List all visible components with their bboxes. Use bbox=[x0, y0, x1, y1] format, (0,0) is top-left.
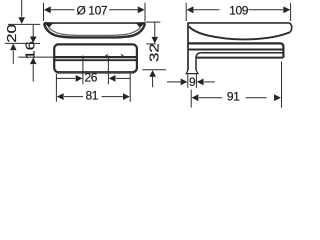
dimension 109 line right segment bbox=[249, 9, 284, 11]
shared extension line dish bottom / plate top bbox=[5, 42, 40, 44]
bracket arm side view bottom bbox=[196, 57, 284, 59]
dimension 20 bottom arrow bbox=[10, 44, 17, 51]
dimension 26 right arrow bbox=[109, 75, 116, 82]
svg-text:26: 26 bbox=[85, 70, 98, 84]
dimension 32 top arrow bbox=[152, 37, 159, 44]
dimension 20 top arrow stem bbox=[21, 0, 23, 17]
dimension Ø107 arrow left bbox=[44, 6, 51, 13]
dimension 32 bottom arrow stem bbox=[152, 77, 154, 88]
dimension 109 line left segment bbox=[193, 9, 219, 11]
dimension 20 bottom arrow stem bbox=[12, 51, 14, 64]
dimension 20 top arrow bbox=[18, 17, 25, 24]
dimension 91 line left segment bbox=[199, 97, 222, 99]
svg-text:9: 9 bbox=[189, 75, 196, 89]
holder plate side view top and right edge bbox=[188, 43, 284, 57]
soap dish front view inner bowl line bbox=[49, 27, 141, 35]
dimension 9 left arrow bbox=[181, 79, 188, 86]
dimension 91 line right segment bbox=[246, 97, 267, 99]
dimension 9 extension line right bbox=[195, 74, 197, 88]
dimension 16 bottom arrow stem bbox=[32, 64, 34, 81]
soap dish side view top rim bbox=[188, 22, 289, 24]
dimension 26 extension line left bbox=[82, 56, 84, 85]
dimension Ø107 extension line right bbox=[144, 3, 146, 21]
wall foot right edge bbox=[195, 58, 197, 71]
dimension 32 top boundary extension line bbox=[146, 43, 156, 45]
dimension Ø107 extension line left bbox=[43, 3, 45, 21]
dimension 81 line right segment bbox=[102, 96, 123, 98]
dimension 81 extension line left bbox=[55, 74, 57, 102]
svg-text:Ø 107: Ø 107 bbox=[76, 3, 107, 17]
soap dish side view bottom contour bbox=[189, 26, 290, 39]
wall line side view bbox=[187, 23, 189, 70]
svg-text:91: 91 bbox=[227, 89, 240, 103]
dimension 32 bottom extension line bbox=[142, 69, 166, 71]
dimension 81 extension line right bbox=[129, 74, 131, 102]
holder plate seam lower line bbox=[54, 59, 137, 61]
dimension 32 bottom arrow bbox=[149, 70, 156, 77]
dimension 91 right arrow bbox=[274, 94, 281, 101]
holder plate seam upper line bbox=[54, 56, 137, 58]
dimension 9 right leader bbox=[204, 81, 215, 83]
holder plate bottom edge shadow bbox=[57, 72, 134, 74]
dimension 9 right arrow bbox=[197, 79, 204, 86]
dimension 16 top arrow stem bbox=[32, 25, 34, 37]
dimension 109 extension line left bbox=[185, 3, 187, 21]
seam break tick left bbox=[104, 54, 108, 57]
dimension 9 extension line left bbox=[187, 74, 189, 88]
svg-text:109: 109 bbox=[229, 3, 249, 17]
svg-text:20: 20 bbox=[5, 24, 20, 43]
dimension 109 arrow right bbox=[283, 6, 290, 13]
dimension 81 right arrow bbox=[123, 93, 130, 100]
seam break tick right bbox=[121, 54, 125, 57]
soap dish front view top rim bbox=[44, 22, 145, 24]
dimension 81 line left segment bbox=[64, 96, 83, 98]
dimension 109 extension line right bbox=[290, 3, 292, 21]
dimension Ø107 arrow right bbox=[138, 6, 145, 13]
dimension 32 dish-top extension line bbox=[145, 21, 161, 23]
dimension Ø107 line right segment bbox=[109, 9, 138, 11]
dimension 16 top arrow bbox=[30, 37, 37, 44]
dimension 91 left arrow bbox=[192, 94, 199, 101]
soap dish side view right edge bbox=[289, 23, 292, 32]
dish right tip wedge bbox=[136, 22, 146, 28]
dimension 26 extension line right bbox=[107, 56, 109, 85]
dimension 91 extension line right bbox=[281, 62, 283, 108]
dish left tip wedge bbox=[44, 22, 54, 28]
dimension 32 top arrow stem bbox=[154, 22, 156, 37]
dimension 20 top extension line bbox=[8, 23, 40, 25]
dimension 91 extension line left bbox=[190, 90, 192, 108]
dimension 26 right leader bbox=[116, 77, 130, 79]
soap dish front view bottom contour bbox=[44, 23, 145, 37]
dimension 109 arrow left bbox=[187, 6, 194, 13]
dimension 9 left leader bbox=[167, 81, 180, 83]
dimension 16 bottom extension line bbox=[18, 56, 54, 58]
dimension Ø107 line left segment bbox=[51, 9, 75, 11]
holder plate side view bottom bbox=[188, 49, 283, 51]
svg-text:32: 32 bbox=[147, 43, 162, 62]
bracket arm side view left cap bbox=[196, 53, 201, 58]
holder plate front view outline bbox=[54, 44, 137, 72]
dimension 81 left arrow bbox=[57, 93, 64, 100]
dimension 16 bottom arrow bbox=[30, 58, 37, 65]
wall foot flared base bbox=[186, 70, 198, 74]
dimension 26 left leader bbox=[57, 77, 76, 79]
svg-text:81: 81 bbox=[86, 88, 99, 102]
bracket arm side view top bbox=[201, 52, 283, 54]
dimension 26 left arrow bbox=[76, 75, 83, 82]
